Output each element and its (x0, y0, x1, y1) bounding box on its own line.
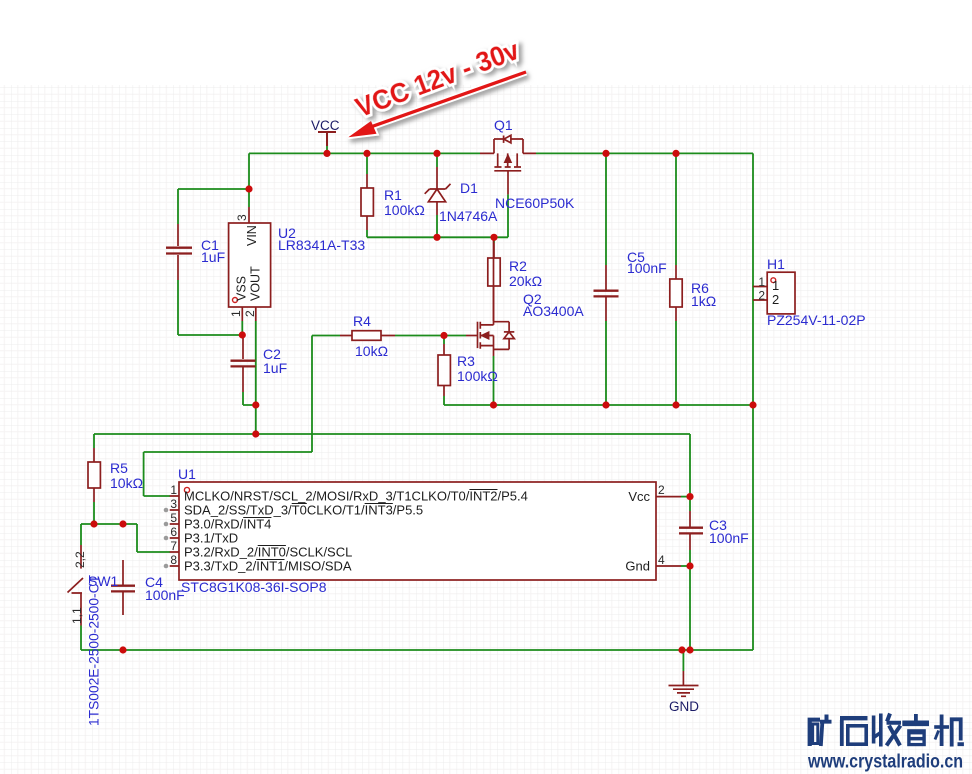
junction mid rail to right rail (749, 401, 756, 408)
junction R2 top (490, 234, 497, 241)
svg-text:7: 7 (170, 539, 177, 553)
svg-text:1kΩ: 1kΩ (691, 293, 716, 309)
wire C2 bottom link (243, 392, 256, 405)
svg-text:D1: D1 (460, 180, 478, 196)
wire VCC stub green (326, 146, 328, 153)
capacitor C3 (689, 511, 691, 550)
svg-text:PZ254V-11-02P: PZ254V-11-02P (767, 312, 866, 328)
resistor R2 (493, 243, 496, 321)
junction Q2 source on mid rail (490, 401, 497, 408)
svg-text:100nF: 100nF (627, 260, 667, 276)
logo www.crystalradio.cn (807, 752, 963, 773)
junction R6 bottom (672, 401, 679, 408)
wire top rail right segment (536, 152, 753, 154)
svg-text:1N4746A: 1N4746A (439, 208, 498, 224)
svg-text:P3.3/TxD_2/INT1/MISO/SDA: P3.3/TxD_2/INT1/MISO/SDA (184, 559, 352, 574)
svg-text:3: 3 (235, 214, 249, 221)
power flag VCC (318, 132, 336, 146)
wire long mid-left rail (94, 434, 690, 448)
svg-text:R3: R3 (457, 353, 475, 369)
wire U1 pin2 link (681, 496, 690, 498)
svg-text:1: 1 (170, 483, 177, 497)
junction GND stub (678, 646, 685, 653)
svg-text:3: 3 (170, 497, 177, 511)
wire R5 bottom (93, 502, 95, 524)
junction R5 bottom (90, 520, 97, 527)
svg-text:VCC: VCC (311, 118, 340, 133)
IC U1 (179, 482, 656, 580)
IC U2 (229, 223, 271, 307)
ground symbol (682, 671, 684, 685)
wire GND stub (682, 650, 684, 671)
wire SW1 bottom (80, 626, 82, 651)
junction R1 top (363, 150, 370, 157)
wire mid rail (444, 404, 753, 406)
transistor Q1 (480, 152, 536, 154)
svg-text:MCLKO/NRST/SCL_2/MOSI/RxD_3/T1: MCLKO/NRST/SCL_2/MOSI/RxD_3/T1CLKO/T0/IN… (184, 489, 528, 504)
junction C5 top (602, 150, 609, 157)
svg-text:U1: U1 (178, 466, 196, 482)
svg-text:Gnd: Gnd (625, 559, 650, 574)
resistor R6 (675, 265, 677, 321)
capacitor C2 (242, 335, 244, 392)
char yin (914, 714, 918, 721)
svg-text:5: 5 (170, 511, 177, 525)
wire R3 bottom (443, 396, 445, 405)
svg-text:1uF: 1uF (263, 360, 287, 376)
resistor R1 (366, 174, 368, 230)
switch SW1 (80, 545, 82, 569)
junction C4 bottom (119, 646, 126, 653)
zener diode D1 (436, 167, 438, 215)
header H1 (767, 272, 795, 314)
svg-text:2: 2 (772, 292, 779, 307)
junction R3 top on R4 net (440, 332, 447, 339)
char shi (840, 716, 868, 720)
capacitor C5 (605, 265, 607, 321)
svg-text:R4: R4 (353, 313, 371, 329)
svg-text:100nF: 100nF (145, 587, 185, 603)
capacitor C1 (177, 224, 179, 280)
svg-text:2: 2 (243, 310, 257, 317)
wire U2 VOUT column (255, 321, 257, 434)
junction VCC stub on top rail (323, 150, 330, 157)
junction D1 bottom (433, 234, 440, 241)
svg-text:100kΩ: 100kΩ (384, 202, 425, 218)
svg-text:1uF: 1uF (201, 249, 225, 265)
junction C2 bottom on VOUT line (252, 401, 259, 408)
svg-text:20kΩ: 20kΩ (509, 273, 542, 289)
no-connect pin circles U1 pins 3,5,6,8 (164, 508, 169, 569)
junction U1 Gnd pin 4 (686, 562, 693, 569)
junction C5 bottom (602, 401, 609, 408)
logo chinese characters 矿石收音机 (810, 714, 964, 747)
resistor R3 (443, 344, 445, 396)
transistor Q2 (466, 335, 478, 337)
wire right rail (752, 153, 754, 650)
svg-text:STC8G1K08-36I-SOP8: STC8G1K08-36I-SOP8 (181, 579, 327, 595)
char kuang (810, 720, 820, 746)
svg-text:R2: R2 (509, 258, 527, 274)
wire C1 top link (178, 153, 249, 224)
svg-text:P3.1/TxD: P3.1/TxD (184, 531, 238, 546)
red annotation arrow (348, 72, 526, 137)
junction VOUT line to long rail (252, 430, 259, 437)
junction U2 VSS / C1 / C2 (239, 331, 246, 338)
svg-text:LR8341A-T33: LR8341A-T33 (278, 237, 365, 253)
svg-text:VSS: VSS (235, 276, 249, 301)
svg-text:1: 1 (229, 310, 243, 317)
wire R1 top (366, 153, 368, 174)
wire Q2 source (493, 356, 495, 405)
svg-text:4: 4 (658, 553, 665, 567)
svg-text:www.crystalradio.cn: www.crystalradio.cn (807, 752, 963, 773)
wire U1 pin4 link (681, 565, 690, 567)
wire C1 bottom to U2 VSS (178, 280, 242, 335)
wire top rail left segment (249, 152, 480, 154)
wire R2 top (493, 237, 495, 243)
svg-text:R5: R5 (110, 460, 128, 476)
svg-text:10kΩ: 10kΩ (355, 343, 388, 359)
svg-text:10kΩ: 10kΩ (110, 475, 143, 491)
wire R6 column (675, 153, 677, 405)
svg-text:Q1: Q1 (494, 117, 513, 133)
svg-text:2: 2 (758, 289, 765, 303)
svg-text:6: 6 (170, 525, 177, 539)
wire D1 top (436, 153, 438, 167)
char shou (874, 714, 881, 747)
svg-text:P3.2/RxD_2/INT0/SCLK/SCL: P3.2/RxD_2/INT0/SCLK/SCL (184, 545, 352, 560)
junction C4 top (119, 520, 126, 527)
junction R6 top (672, 150, 679, 157)
junction U2 VIN branch (245, 185, 252, 192)
junction U1 Vcc pin 2 (686, 493, 693, 500)
svg-text:AO3400A: AO3400A (523, 303, 584, 319)
svg-text:GND: GND (669, 699, 699, 714)
svg-text:NCE60P50K: NCE60P50K (495, 195, 575, 211)
svg-text:P3.0/RxD/INT4: P3.0/RxD/INT4 (184, 517, 271, 532)
wire R4 net (144, 336, 466, 497)
svg-text:8: 8 (170, 553, 177, 567)
wire C3 column (689, 434, 691, 650)
svg-text:1,1: 1,1 (70, 607, 84, 624)
svg-text:1: 1 (772, 278, 779, 293)
svg-text:2: 2 (658, 483, 665, 497)
wire SW1 net (81, 524, 170, 552)
svg-text:100kΩ: 100kΩ (457, 368, 498, 384)
wire bottom rail (81, 649, 753, 651)
svg-text:VOUT: VOUT (249, 266, 263, 301)
junction C3 line bottom (686, 646, 693, 653)
svg-text:R1: R1 (384, 187, 402, 203)
char ji (934, 725, 949, 729)
svg-text:Vcc: Vcc (628, 489, 650, 504)
svg-text:100nF: 100nF (709, 530, 749, 546)
resistor R5 (93, 448, 95, 502)
wire R1/D1 bottom link to Q1 gate (367, 194, 508, 237)
svg-text:VIN: VIN (245, 225, 259, 246)
svg-text:1: 1 (758, 275, 765, 289)
resistor R4 (340, 335, 395, 337)
svg-text:1TS002E-2500-2500-CT: 1TS002E-2500-2500-CT (86, 575, 102, 726)
svg-text:H1: H1 (767, 256, 785, 272)
svg-text:SDA_2/SS/TxD_3/T0CLKO/T1/INT3/: SDA_2/SS/TxD_3/T0CLKO/T1/INT3/P5.5 (184, 503, 423, 518)
wire C5 column (605, 153, 607, 405)
junction D1 top (433, 150, 440, 157)
capacitor C4 (122, 560, 124, 615)
svg-text:2,2: 2,2 (73, 551, 87, 568)
